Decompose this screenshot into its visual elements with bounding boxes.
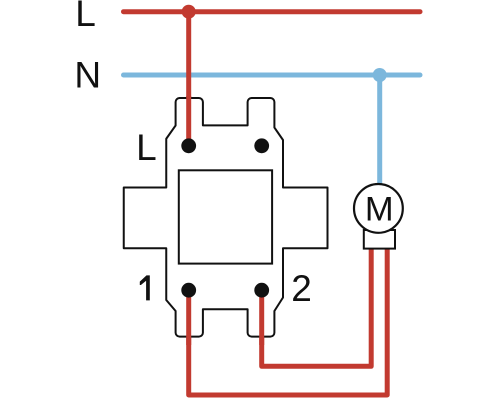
motor M1 circle (354, 184, 403, 233)
wire: terminal 2 to motor (inner red path) (262, 249, 372, 366)
switch S1 body outline (124, 98, 328, 337)
svg-text:L: L (75, 0, 96, 34)
terminal 1 dot (bottom-left) (181, 283, 196, 298)
wire: red drop from L rail to switch terminal L (186, 12, 191, 146)
label 1 (switch terminal) (140, 275, 150, 300)
terminal dot (top-right) (254, 138, 269, 153)
node: junction on L rail (182, 5, 196, 19)
wire: red drop overlay through top tab (186, 96, 191, 146)
wire: terminal 1 to motor (outer red path) (189, 249, 388, 395)
svg-text:L: L (136, 127, 157, 168)
switch inner square (rocker opening) (179, 170, 272, 263)
wire: blue drop from N rail to motor (377, 75, 382, 208)
svg-text:M: M (365, 191, 394, 229)
wire: N rail (blue horizontal) (124, 73, 421, 78)
wire: red exits through bottom-right tab (259, 290, 264, 345)
terminal 2 dot (bottom-right) (254, 283, 269, 298)
svg-text:N: N (74, 55, 101, 96)
node: junction on N rail (373, 68, 387, 82)
wire: L rail (red horizontal) (124, 9, 421, 14)
terminal L dot (top-left) (181, 138, 196, 153)
svg-text:2: 2 (291, 268, 312, 309)
wire: red exits through bottom-left tab (186, 290, 191, 345)
motor M1 terminal box (364, 230, 395, 249)
